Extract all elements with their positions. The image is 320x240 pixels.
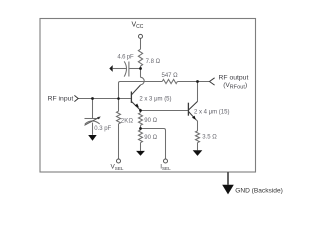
svg-text:0.3 pF: 0.3 pF (94, 126, 111, 132)
svg-text:GND (Backside): GND (Backside) (235, 187, 283, 194)
svg-text:90 Ω: 90 Ω (144, 135, 157, 141)
svg-text:90 Ω: 90 Ω (144, 118, 157, 124)
svg-text:RF output: RF output (219, 75, 249, 82)
svg-text:4.6 pF: 4.6 pF (117, 54, 134, 60)
svg-text:(VRFout): (VRFout) (223, 82, 247, 90)
svg-text:RF input: RF input (48, 96, 74, 103)
svg-text:2 x 3 μm (5): 2 x 3 μm (5) (139, 97, 171, 103)
svg-text:7.8 Ω: 7.8 Ω (146, 59, 161, 65)
svg-text:2KΩ: 2KΩ (121, 118, 134, 124)
svg-text:547 Ω: 547 Ω (162, 73, 179, 79)
svg-text:3.5 Ω: 3.5 Ω (202, 134, 217, 140)
svg-text:2 x 4 μm (15): 2 x 4 μm (15) (194, 109, 229, 115)
